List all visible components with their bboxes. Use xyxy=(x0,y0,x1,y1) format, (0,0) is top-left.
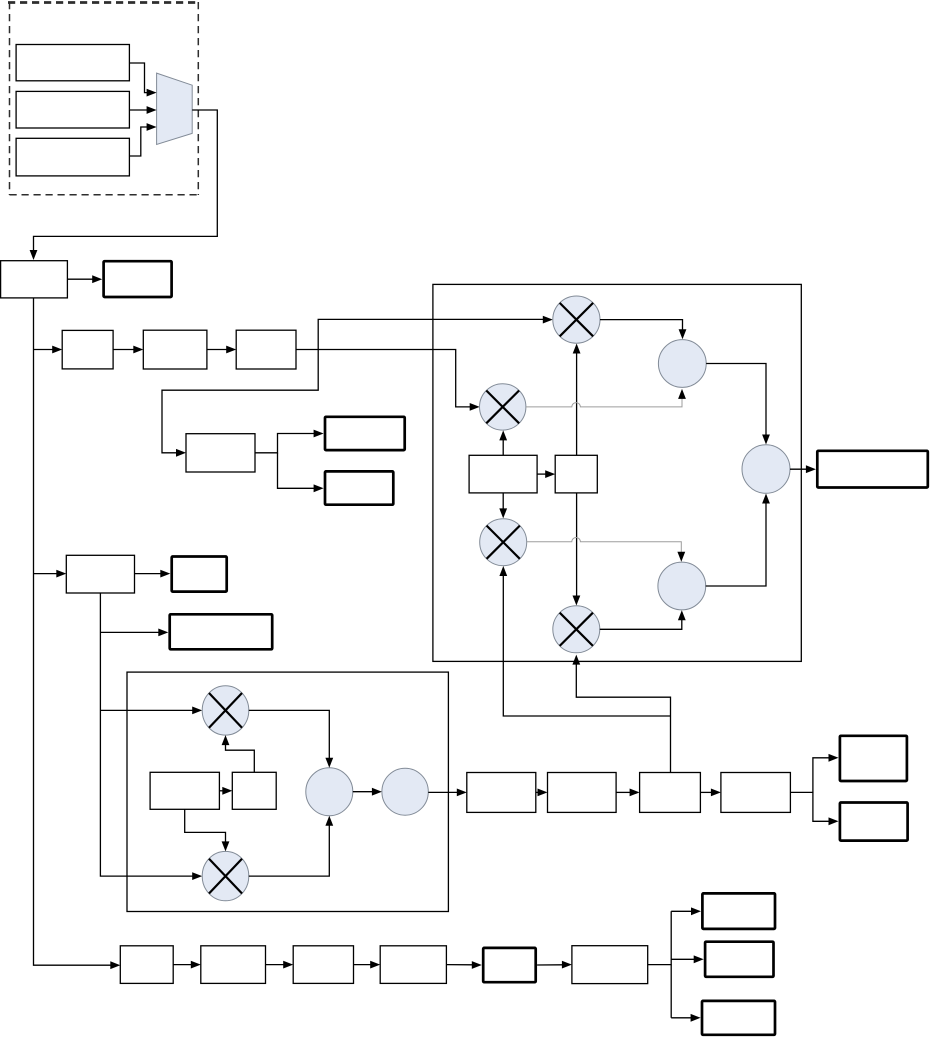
bold box H3 xyxy=(702,1001,775,1035)
box P1 (main input block) xyxy=(1,261,68,298)
box C1 xyxy=(62,330,113,369)
wire splitter to H2 xyxy=(671,955,704,963)
wire splitter to H1 xyxy=(671,907,701,915)
big box frame (complex mixer) xyxy=(433,284,801,661)
box E3 xyxy=(640,773,701,813)
box LD (phase shift) xyxy=(232,772,276,809)
wire P1 to B1 xyxy=(67,275,102,283)
wire G6 to splitter xyxy=(648,911,672,1018)
box LC (NCO) xyxy=(150,772,219,809)
wire LA to LB xyxy=(537,470,555,478)
mux U1 (trapezoid selector) xyxy=(157,73,193,144)
bold box B3 xyxy=(325,471,393,504)
box T2 (input source 2) xyxy=(16,91,129,128)
wire C2 to C3 xyxy=(207,346,236,354)
dashed group box (input selection) xyxy=(8,2,199,195)
wire G1 to G2 xyxy=(173,961,201,969)
wire G4 to G5 xyxy=(446,961,481,969)
wire C3 output to multiplier M2 xyxy=(296,350,480,411)
wire S5 to E1 xyxy=(428,789,467,797)
wire C1 to C2 xyxy=(113,346,143,354)
wire LA to M2 xyxy=(499,430,507,455)
box LB (phase shift 2) xyxy=(555,455,597,493)
wire branch to P2 xyxy=(34,570,67,578)
bold box B4 xyxy=(172,557,227,592)
bold box H2 xyxy=(705,942,773,977)
multiplier M3 xyxy=(480,519,527,566)
wire M3 to S2 (gray with hop) xyxy=(527,537,685,561)
wire M4 to S2 xyxy=(600,610,686,629)
box E1 xyxy=(467,773,536,813)
multiplier M4 xyxy=(553,606,600,653)
wire LC to M6 xyxy=(185,809,230,851)
box G1 xyxy=(120,946,173,984)
sub-block frame (modulator) xyxy=(127,672,448,911)
wire LA to M3 xyxy=(499,493,507,519)
wire P2 bottom bus to M6 xyxy=(100,593,202,880)
circle S5 (filter) xyxy=(382,768,428,815)
wire main vertical bus xyxy=(34,298,121,969)
wire D1 to B2 xyxy=(255,430,324,453)
wire T2 to mux xyxy=(129,106,156,114)
wire M6 to S4 xyxy=(249,816,333,876)
wire LD to M5 xyxy=(222,735,255,772)
wire LB to M4 xyxy=(573,493,581,606)
box P2 xyxy=(66,555,134,593)
wire G3 to G4 xyxy=(354,961,381,969)
wire branch to D1 xyxy=(162,350,318,457)
box C3 xyxy=(236,330,296,369)
bold result box R xyxy=(817,451,928,488)
bold box B2 xyxy=(325,417,405,450)
multiplier M1 xyxy=(553,296,600,343)
adder S1 xyxy=(658,340,706,388)
box E4 xyxy=(721,773,791,813)
wire E4 to F2 xyxy=(813,792,839,825)
wire M2 to S1 (gray with hop) xyxy=(526,389,686,407)
wire M5 to S4 xyxy=(249,710,333,767)
multiplier M6 xyxy=(202,851,249,900)
wire branch to M5 xyxy=(100,707,202,715)
wire G2 to G3 xyxy=(266,961,294,969)
bold box G5 xyxy=(483,948,536,982)
wire splitter to H3 xyxy=(671,1014,700,1022)
box LA (NCO 2) xyxy=(469,455,537,493)
wire T3 to mux xyxy=(129,123,156,156)
box C2 xyxy=(143,330,207,369)
wire E3 feedback to M3 xyxy=(499,566,670,716)
wire S2 to S3 xyxy=(706,494,770,587)
wire S4 to S5 xyxy=(353,788,382,796)
wire E3 feedback to M4 xyxy=(572,655,670,773)
wire E4 to F1 xyxy=(790,754,838,793)
wire mux output to P1 xyxy=(30,110,218,260)
wire LC to LD xyxy=(219,787,232,795)
wire S1 to S3 xyxy=(706,364,770,445)
multiplier M2 xyxy=(480,384,526,430)
wire branch to B5 xyxy=(100,629,168,637)
adder S3 xyxy=(742,445,790,494)
bold box B5 xyxy=(170,614,273,649)
multiplier M5 xyxy=(202,686,249,735)
wire P2 to B4 xyxy=(135,570,171,578)
box G6 xyxy=(572,946,648,984)
wire LB to M1 xyxy=(573,344,581,456)
box T1 (input source 1) xyxy=(16,45,129,81)
box D1 xyxy=(186,434,255,472)
box G3 xyxy=(293,946,353,984)
wire E2 to E3 xyxy=(616,789,640,797)
wire branch to C1 xyxy=(34,346,63,354)
bold box F1 xyxy=(840,736,907,781)
wire T1 to mux xyxy=(129,63,156,97)
wire M1 to S1 xyxy=(600,320,686,340)
box G2 xyxy=(201,946,266,984)
adder S4 xyxy=(306,768,353,816)
bold box B1 xyxy=(104,261,172,297)
wire D1 to B3 xyxy=(278,453,324,492)
wire branch to multiplier M1 xyxy=(318,316,553,350)
box T3 (input source 3) xyxy=(16,138,129,176)
adder S2 xyxy=(658,562,706,610)
wire E1 to E2 xyxy=(536,789,548,797)
wire G5 to G6 xyxy=(537,961,572,969)
wire S3 to result box R xyxy=(790,465,816,473)
bold box H1 xyxy=(702,893,775,929)
box E2 xyxy=(548,773,617,813)
wire E3 to E4 xyxy=(700,789,721,797)
box G4 xyxy=(380,946,446,984)
bold box F2 xyxy=(840,803,908,841)
